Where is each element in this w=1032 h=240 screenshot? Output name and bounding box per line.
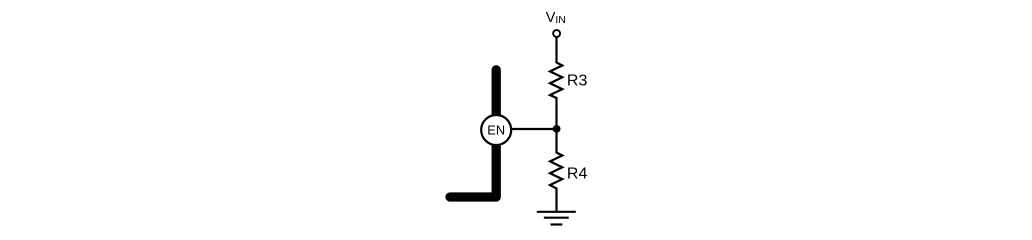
svg-text:EN: EN bbox=[487, 122, 505, 137]
svg-text:V: V bbox=[546, 10, 556, 26]
svg-text:IN: IN bbox=[555, 14, 566, 26]
svg-text:R4: R4 bbox=[567, 166, 588, 183]
svg-text:R3: R3 bbox=[567, 73, 588, 90]
